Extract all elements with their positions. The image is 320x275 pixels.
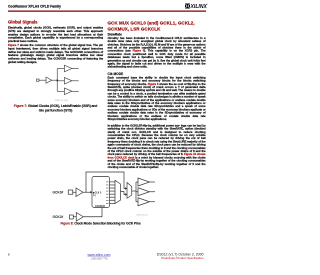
figure number small gray bbox=[55, 100, 68, 102]
input 1 square bbox=[68, 190, 73, 194]
svg-text:®: ® bbox=[207, 3, 209, 6]
tall mux output bbox=[121, 192, 128, 195]
buffer 2 bbox=[76, 213, 83, 222]
right paragraph 2 bbox=[108, 76, 206, 121]
wire to junction bbox=[52, 79, 58, 82]
left paragraph part 2 with red figure reference bbox=[8, 44, 103, 64]
bottom caption bbox=[61, 222, 141, 226]
right paragraph 3 bbox=[108, 124, 206, 169]
wire buffer2 to box bottom bbox=[83, 208, 102, 217]
right heading 2 lines bbox=[108, 20, 216, 32]
bottom branch bbox=[57, 90, 64, 93]
figure: global signal tree bbox=[30, 62, 90, 100]
input pad square bbox=[37, 79, 40, 81]
subhead 2 bbox=[108, 72, 124, 76]
box internal markings bbox=[92, 191, 105, 208]
svg-text:▶CLK 0: ▶CLK 0 bbox=[92, 191, 102, 194]
svg-text:FQ: FQ bbox=[93, 195, 96, 197]
buffer bbox=[46, 77, 52, 83]
vertical distribution bbox=[135, 182, 138, 202]
Xilinx logo bbox=[185, 3, 209, 10]
box out wires bbox=[110, 180, 116, 183]
clock box bbox=[92, 177, 110, 208]
figure caption 2 lines bbox=[8, 103, 103, 113]
wire bbox=[39, 79, 46, 82]
right paragraph 1 bbox=[108, 37, 206, 69]
middle branch bbox=[57, 80, 64, 83]
buffer 1 bbox=[76, 188, 83, 197]
top branch bbox=[57, 67, 64, 70]
figure number small gray bbox=[137, 214, 148, 216]
svg-text:XILINX: XILINX bbox=[190, 4, 208, 10]
svg-text:GCK0#: GCK0# bbox=[53, 191, 64, 195]
arrowheads bbox=[90, 191, 92, 194]
feedback wire bbox=[86, 172, 127, 192]
small mux bbox=[127, 183, 132, 199]
subhead Slew Rate bbox=[108, 32, 122, 36]
input 2 square bbox=[70, 215, 74, 219]
svg-text:GCK2#: GCK2# bbox=[53, 215, 64, 219]
header red rule bbox=[8, 11, 206, 12]
left heading bbox=[8, 20, 38, 25]
vertical junction line bbox=[56, 69, 59, 92]
header left title bbox=[8, 4, 61, 8]
tall mux bbox=[115, 180, 121, 203]
output buffers bbox=[136, 181, 138, 184]
svg-text:GCKMUX: GCKMUX bbox=[95, 206, 105, 208]
left paragraph part 1 bbox=[8, 26, 103, 43]
